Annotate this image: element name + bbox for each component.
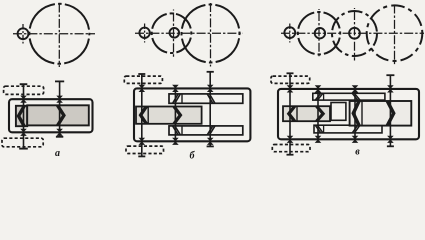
housing scheme b: [134, 88, 250, 141]
bearing shaft2 top scheme v: [315, 85, 322, 92]
helical mark z3 top scheme b: [173, 94, 181, 103]
centerline vertical shaft B scheme v: [318, 9, 320, 58]
shaft 4 scheme v: [389, 75, 391, 146]
shaft 3 scheme b: [209, 72, 211, 147]
chevron pinion z1 scheme b: [140, 107, 147, 124]
gear z2 pitch circle scheme b: [152, 13, 192, 53]
centerline horizontal scheme a: [13, 33, 95, 35]
pinion z1 circle scheme v: [284, 27, 295, 38]
coupling dashed rect top scheme v: [271, 76, 310, 83]
helical mark z4 top scheme v: [352, 93, 360, 100]
chevron pinion z5 scheme v: [352, 101, 359, 125]
chevron pinion z1 scheme a: [18, 106, 25, 126]
helical mark z3 bottom scheme v: [315, 125, 323, 133]
coupling dashed rect bottom scheme a: [2, 138, 43, 147]
shaft 3 top cap scheme b: [207, 71, 214, 73]
chevron gear z2 scheme a: [57, 106, 65, 126]
divider bottom band scheme v: [323, 125, 325, 133]
shaft 1 scheme v: [289, 73, 291, 154]
stage1 gear rect scheme v: [283, 106, 330, 121]
centerline vertical gear z4 scheme b: [210, 1, 212, 67]
pinion z1 circle scheme a: [18, 28, 29, 39]
gear z4 pitch circle scheme b: [182, 5, 240, 63]
shaft 1 top cap scheme b: [138, 73, 145, 75]
svg-text:а: а: [55, 148, 60, 159]
gear z2 rect scheme a: [27, 105, 89, 125]
top band rect scheme v: [313, 93, 385, 100]
centerline horizontal scheme v: [281, 32, 424, 34]
shaft 4 bottom cap scheme v: [387, 145, 394, 147]
bearing shaft1 top scheme b: [139, 85, 146, 92]
centerline vertical shaft B scheme b: [173, 10, 175, 58]
bottom band rect scheme b: [169, 126, 243, 135]
centerline vertical shaft C scheme v: [354, 8, 356, 61]
stage3 gear rect scheme v: [350, 101, 412, 126]
shaft 2 top cap scheme a: [55, 80, 64, 82]
shaft 4 top cap scheme v: [386, 74, 394, 76]
svg-text:в: в: [355, 147, 360, 158]
shaft 1 scheme b: [141, 74, 143, 156]
centerline vertical pinion z1 scheme b: [144, 24, 146, 43]
top band rect scheme b: [169, 94, 243, 103]
housing scheme a: [9, 99, 93, 132]
gear z6 pitch circle scheme v: [367, 5, 423, 61]
bearing shaft3 top scheme v: [352, 85, 359, 92]
shaft 1 bottom cap scheme a: [19, 148, 28, 150]
bearing shaft2 bottom scheme v: [315, 136, 322, 143]
middle gear rect scheme b: [136, 107, 202, 124]
divider top band scheme v: [323, 93, 325, 100]
helical mark z4 bottom scheme b: [207, 126, 215, 135]
pinion z5 circle scheme v: [349, 28, 360, 39]
bearing shaft3 bottom scheme v: [352, 136, 359, 143]
centerline vertical gear z2 scheme a: [58, 2, 60, 68]
bearing shaft2 top scheme b: [172, 85, 179, 92]
divider top band scheme b: [181, 94, 183, 103]
divider stage1 scheme v: [296, 106, 298, 121]
pinion z1 rect scheme a: [16, 106, 27, 126]
chevron pinion z1 scheme v: [288, 107, 295, 121]
centerline horizontal scheme b: [135, 32, 243, 34]
divider bottom band scheme b: [181, 126, 183, 135]
centerline vertical pinion z1 scheme a: [22, 24, 24, 44]
shaft 1 bottom cap scheme b: [138, 155, 145, 157]
centerline vertical pinion z1 scheme v: [289, 24, 291, 43]
shaft 1 bottom cap scheme v: [287, 154, 294, 156]
coupling dashed rect bottom scheme b: [126, 146, 164, 153]
shaft 3 bottom cap scheme b: [207, 145, 214, 147]
shaft 1 scheme a: [23, 84, 25, 148]
svg-text:б: б: [190, 151, 196, 162]
shaft 1 top cap scheme v: [287, 72, 294, 74]
bottom band rect scheme v: [314, 125, 382, 133]
pinion z1 circle scheme b: [139, 28, 149, 38]
shaft 2 scheme a: [59, 81, 61, 136]
centerline vertical gear z6 scheme v: [394, 3, 396, 65]
housing scheme v: [278, 89, 419, 139]
pinion z3 circle scheme b: [170, 28, 180, 38]
shaft 1 top cap scheme a: [20, 83, 28, 85]
coupling dashed rect top scheme b: [124, 76, 162, 83]
shaft 2 scheme v: [317, 89, 319, 139]
chevron gear z6 scheme v: [387, 101, 395, 125]
gear z4 pitch circle scheme v: [332, 11, 377, 56]
shaft 2 scheme b: [174, 88, 176, 141]
bearing shaft3 bottom scheme b: [207, 138, 214, 145]
bearing shaft4 bottom scheme v: [387, 136, 394, 143]
gear z2 pitch circle scheme v: [298, 12, 340, 54]
helical mark z3 bottom scheme b: [173, 126, 181, 135]
shaft 2 bottom cap scheme a: [56, 136, 63, 138]
gear z2 pitch circle scheme a: [29, 4, 89, 64]
chevron gear z2 scheme b: [173, 107, 181, 124]
bearing shaft2 top scheme a: [56, 96, 63, 103]
bearing shaft1 bottom scheme v: [287, 136, 294, 143]
coupling dashed rect bottom scheme v: [272, 145, 310, 152]
bearing shaft2 bottom scheme a: [56, 129, 63, 136]
shaft 3 scheme v: [354, 89, 356, 139]
pinion z3 circle scheme v: [315, 28, 325, 38]
bearing shaft1 top scheme v: [287, 85, 294, 92]
bearing shaft1 top scheme a: [20, 96, 27, 103]
bearing shaft1 bottom scheme a: [20, 129, 27, 136]
divider stage3 scheme v: [361, 101, 363, 126]
bearing shaft2 bottom scheme b: [172, 138, 179, 145]
helical mark z4 top scheme b: [207, 94, 215, 103]
bearing shaft3 top scheme b: [207, 85, 214, 92]
small rect middle scheme v: [331, 103, 346, 121]
coupling dashed rect top scheme a: [4, 86, 44, 94]
bearing shaft1 bottom scheme b: [139, 138, 146, 145]
chevron gear z2 scheme v: [316, 107, 324, 121]
divider middle rect scheme b: [147, 107, 149, 124]
helical mark z3 top scheme v: [315, 93, 323, 100]
bearing shaft4 top scheme v: [387, 85, 394, 92]
helical mark z4 bottom scheme v: [352, 125, 360, 133]
